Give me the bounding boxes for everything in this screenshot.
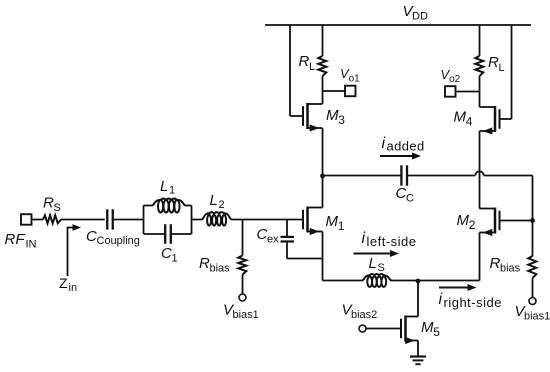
svg-text:S: S — [378, 262, 385, 274]
svg-text:M: M — [421, 319, 434, 336]
svg-text:2: 2 — [469, 218, 476, 232]
svg-text:S: S — [54, 202, 61, 214]
svg-text:1: 1 — [169, 185, 175, 197]
svg-text:DD: DD — [412, 11, 428, 23]
svg-text:bias1: bias1 — [233, 309, 259, 321]
svg-text:added: added — [387, 139, 425, 154]
svg-text:bias2: bias2 — [351, 309, 377, 321]
svg-text:L: L — [210, 192, 218, 209]
svg-text:5: 5 — [433, 325, 440, 339]
svg-text:IN: IN — [26, 239, 37, 251]
svg-text:L: L — [309, 61, 315, 73]
svg-text:1: 1 — [172, 253, 178, 265]
svg-text:o1: o1 — [349, 73, 361, 84]
svg-text:3: 3 — [338, 113, 345, 127]
svg-text:L: L — [160, 178, 168, 195]
svg-text:M: M — [457, 212, 470, 229]
svg-text:M: M — [326, 213, 339, 230]
svg-text:i: i — [362, 230, 366, 247]
svg-text:4: 4 — [466, 115, 473, 129]
svg-text:L: L — [499, 62, 505, 74]
svg-text:o2: o2 — [449, 74, 461, 85]
svg-text:2: 2 — [219, 199, 225, 211]
svg-text:i: i — [382, 135, 386, 152]
svg-text:ex: ex — [267, 234, 279, 246]
svg-text:R: R — [488, 54, 499, 71]
svg-text:C: C — [257, 226, 268, 243]
svg-text:C: C — [396, 185, 407, 202]
svg-text:bias: bias — [210, 263, 231, 275]
svg-text:R: R — [199, 255, 210, 272]
svg-text:in: in — [69, 282, 78, 294]
svg-text:RF: RF — [5, 231, 26, 248]
svg-text:L: L — [369, 255, 377, 272]
svg-text:C: C — [161, 245, 172, 262]
svg-text:C: C — [406, 193, 414, 205]
svg-text:M: M — [454, 109, 467, 126]
svg-text:1: 1 — [338, 219, 345, 233]
svg-text:R: R — [490, 255, 501, 272]
svg-text:i: i — [439, 291, 443, 308]
svg-text:right-side: right-side — [444, 295, 502, 310]
svg-text:Coupling: Coupling — [97, 235, 140, 247]
svg-text:R: R — [43, 195, 54, 212]
svg-text:R: R — [299, 53, 310, 70]
svg-text:Z: Z — [59, 275, 68, 291]
svg-text:bias1: bias1 — [524, 311, 550, 323]
svg-text:M: M — [326, 107, 339, 124]
svg-text:bias: bias — [500, 263, 521, 275]
svg-text:C: C — [86, 228, 97, 245]
svg-text:left-side: left-side — [367, 234, 417, 249]
